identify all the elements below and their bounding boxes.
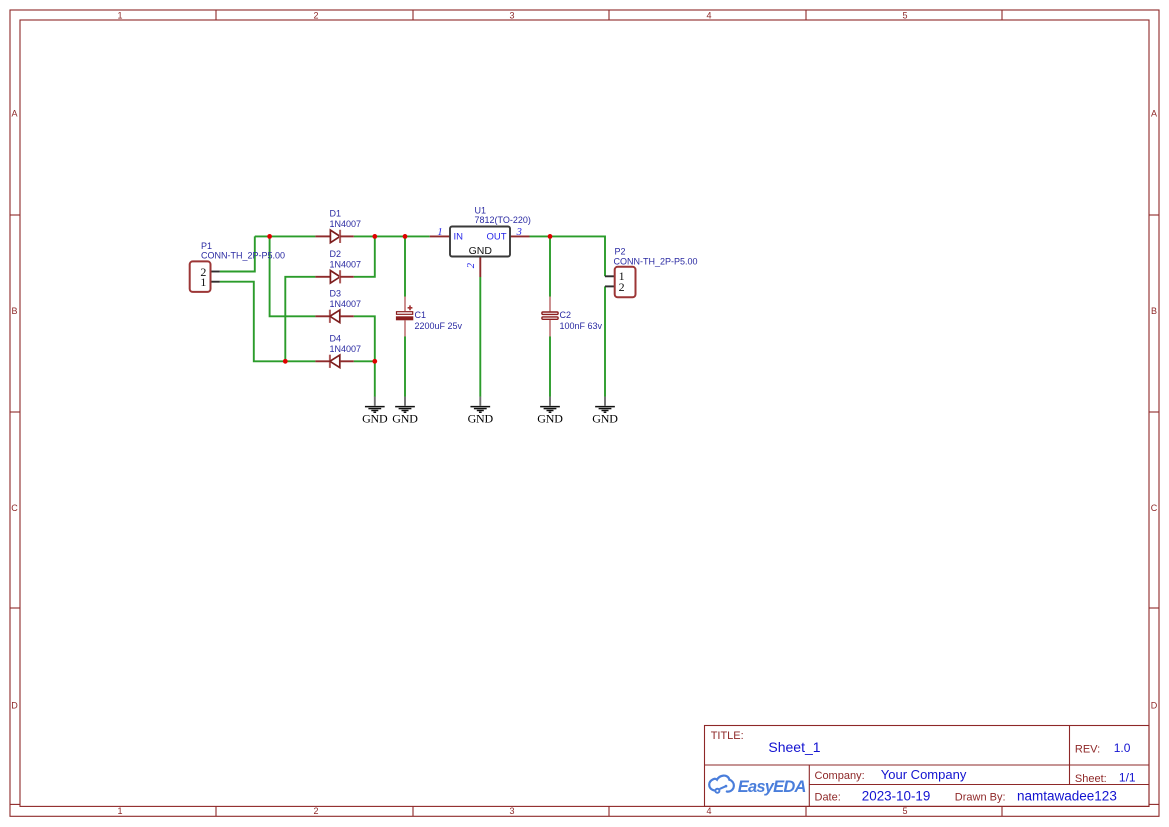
svg-text:EasyEDA: EasyEDA [738,778,806,796]
svg-text:GND: GND [469,245,493,257]
svg-text:D1: D1 [330,208,342,218]
svg-text:4: 4 [706,806,711,816]
svg-text:2200uF 25v: 2200uF 25v [415,321,463,331]
svg-text:C: C [11,503,18,513]
EasyEDA logo [709,776,734,793]
diode D4 1N4007 (mirrored) [315,334,361,368]
svg-text:TITLE:: TITLE: [711,730,744,742]
svg-text:1: 1 [117,806,122,816]
svg-text:IN: IN [454,232,464,243]
node C1 tap [403,234,408,239]
capacitor C2 100nF 63v [542,297,603,337]
node D4/GND [372,359,377,364]
ground GND5 [592,397,618,426]
wire D1 cathode to U1 input rail [354,235,430,237]
svg-text:1N4007: 1N4007 [330,344,362,354]
wire rail down to C1 top [404,236,406,296]
wire D4 cathode to junction [354,360,375,362]
wire P1 pin1 to D4 row [220,282,316,362]
svg-text:GND: GND [592,411,618,425]
svg-text:2: 2 [466,262,477,268]
svg-text:2023-10-19: 2023-10-19 [862,789,931,804]
svg-text:5: 5 [902,10,907,20]
diode D3 1N4007 (mirrored) [315,289,361,323]
connector P2 CONN-TH_2P-P5.00 [605,247,698,298]
svg-text:2: 2 [313,10,318,20]
svg-text:4: 4 [706,10,711,20]
svg-text:Drawn By:: Drawn By: [955,791,1006,803]
svg-text:D2: D2 [330,249,342,259]
svg-text:Company:: Company: [815,770,865,782]
svg-text:D3: D3 [330,289,342,299]
svg-text:P2: P2 [615,247,626,257]
svg-text:GND: GND [362,411,388,425]
svg-text:1: 1 [117,10,122,20]
ground GND1 [362,397,388,426]
ground GND3 [468,397,494,426]
wire P1 pin2 to top rail [220,236,255,271]
svg-text:C1: C1 [415,310,427,320]
svg-text:1N4007: 1N4007 [330,299,362,309]
svg-text:Sheet:: Sheet: [1075,773,1107,785]
wire U1 output rail to P2 [530,236,606,276]
node D1/D2 cathodes [372,234,377,239]
capacitor C1 2200uF 25v (electrolytic) [397,297,463,337]
svg-text:A: A [1151,109,1157,119]
node D2 branch [283,359,288,364]
diode D1 1N4007 [315,208,361,243]
wire junction down to GND1 [374,361,376,397]
op-amp U1 7812(TO-220) regulator [430,206,531,277]
wire C1 bottom to GND2 [404,336,406,397]
svg-text:C2: C2 [560,310,572,320]
svg-text:Date:: Date: [815,791,841,803]
connector P1 CONN-TH_2P-P5.00 [190,241,285,292]
wire branch to D3 anode [270,236,316,316]
svg-text:CONN-TH_2P-P5.00: CONN-TH_2P-P5.00 [614,256,698,266]
svg-text:1N4007: 1N4007 [330,219,362,229]
svg-text:Sheet_1: Sheet_1 [768,739,820,755]
svg-text:1N4007: 1N4007 [330,259,362,269]
svg-text:5: 5 [902,806,907,816]
svg-text:REV:: REV: [1075,743,1100,755]
svg-text:namtawadee123: namtawadee123 [1017,789,1117,804]
ground GND4 [537,397,563,426]
svg-text:GND: GND [392,411,418,425]
svg-text:GND: GND [468,411,494,425]
svg-text:A: A [11,109,17,119]
svg-text:OUT: OUT [487,232,507,243]
wire U1 pin2 down to GND3 [479,277,481,397]
svg-text:D: D [1151,701,1158,711]
svg-text:1/1: 1/1 [1119,771,1136,785]
svg-text:2: 2 [313,806,318,816]
wire branch up to D2 anode [285,277,315,362]
wire top rail left segment [255,235,316,237]
node rail-D3 branch [267,234,272,239]
title block [705,726,1150,807]
svg-text:U1: U1 [475,206,487,216]
ground GND2 [392,397,418,426]
svg-text:1: 1 [200,275,206,289]
node C2 tap [548,234,553,239]
svg-text:D4: D4 [330,334,342,344]
svg-text:2: 2 [619,280,625,294]
svg-text:B: B [1151,306,1157,316]
junction dots [267,234,552,364]
svg-text:GND: GND [537,411,563,425]
svg-text:3: 3 [509,10,514,20]
wire rail down to C2 top [549,236,551,296]
svg-text:1.0: 1.0 [1114,741,1131,755]
svg-text:D: D [11,701,18,711]
svg-text:100nF 63v: 100nF 63v [560,321,603,331]
wire P2 pin2 down to GND5 [604,286,606,396]
svg-text:Your Company: Your Company [881,767,967,782]
svg-text:CONN-TH_2P-P5.00: CONN-TH_2P-P5.00 [201,250,285,260]
wire C2 bottom to GND4 [549,336,551,397]
diode D2 1N4007 [315,249,361,283]
svg-text:B: B [11,306,17,316]
svg-text:3: 3 [516,227,522,238]
wire D3 cathode down to D4 row [354,316,375,361]
svg-text:C: C [1151,503,1158,513]
wire D2 cathode up to rail [354,236,375,276]
svg-text:7812(TO-220): 7812(TO-220) [475,215,531,225]
svg-text:3: 3 [509,806,514,816]
svg-text:1: 1 [437,227,442,238]
